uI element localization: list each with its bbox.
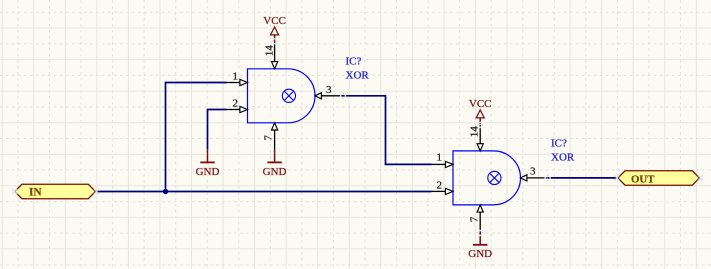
pin 7 (ground) of gate 1 bbox=[272, 123, 278, 150]
svg-text:3: 3 bbox=[530, 165, 536, 177]
XOR gate IC?/U2 body bbox=[453, 151, 521, 205]
pin 2 of gate 2 bbox=[432, 188, 454, 194]
wire IN net: port to gate2 pin2 bbox=[96, 191, 432, 193]
comment XOR (gate 2) bbox=[551, 151, 575, 163]
wire gate2 output to OUT port bbox=[548, 177, 618, 179]
svg-text:1: 1 bbox=[233, 71, 239, 83]
comment XOR (gate 1) bbox=[346, 70, 370, 82]
ground symbol at x=274.6 bbox=[263, 150, 287, 178]
svg-text:14: 14 bbox=[264, 45, 276, 57]
node marker: OUT port right tip bbox=[698, 175, 703, 180]
svg-text:7: 7 bbox=[468, 216, 480, 222]
XOR gate IC?/U1 body bbox=[248, 69, 315, 123]
pin number 14 (gate 1) bbox=[264, 45, 276, 57]
wire gate1 pin2 to ground bbox=[208, 110, 227, 150]
node marker: gate1 pin3 hotspot bbox=[340, 93, 346, 99]
ground symbol at x=207.5 bbox=[196, 150, 220, 178]
pin number 7 (gate 1) bbox=[263, 135, 275, 141]
pin 14 (power) of gate 2 bbox=[477, 125, 483, 151]
node marker: gate2 pin14 hotspot bbox=[477, 122, 483, 128]
node marker: gate2 pin3 hotspot bbox=[545, 175, 551, 181]
ground symbol at x=480.2 bbox=[468, 234, 492, 260]
svg-text:VCC: VCC bbox=[263, 15, 286, 27]
svg-text:GND: GND bbox=[196, 166, 220, 178]
power VCC symbol at x=274.6 bbox=[263, 15, 286, 41]
pin number 14 (gate 2) bbox=[469, 126, 481, 138]
pin number 7 (gate 2) bbox=[468, 216, 480, 222]
svg-text:7: 7 bbox=[263, 135, 275, 141]
svg-text:IC?: IC? bbox=[346, 56, 362, 68]
node marker: gate1 pin14 hotspot bbox=[271, 38, 277, 44]
svg-text:XOR: XOR bbox=[551, 151, 575, 163]
port IN bbox=[15, 184, 96, 198]
power VCC symbol at x=480.2 bbox=[469, 98, 492, 124]
svg-text:OUT: OUT bbox=[631, 173, 655, 185]
svg-text:1: 1 bbox=[437, 152, 443, 164]
wire gate1 output to gate2 pin1 bbox=[342, 96, 432, 165]
pin number 2 (gate 2) bbox=[437, 179, 443, 191]
designator IC? (gate 2) bbox=[551, 138, 567, 150]
pin 1 of gate 1 bbox=[227, 79, 248, 85]
pin number 2 (gate 1) bbox=[233, 98, 239, 110]
svg-text:IN: IN bbox=[29, 186, 42, 198]
pin 3 (output) of gate 1 bbox=[315, 93, 342, 99]
pin number 3 (gate 1) bbox=[326, 84, 332, 96]
pin number 3 (gate 2) bbox=[530, 165, 536, 177]
node marker: IN port right tip bbox=[94, 189, 99, 194]
pin 7 (ground) of gate 2 bbox=[477, 205, 483, 234]
pin 3 (output) of gate 2 bbox=[521, 175, 548, 181]
svg-text:3: 3 bbox=[326, 84, 332, 96]
port OUT bbox=[618, 171, 700, 186]
svg-text:2: 2 bbox=[233, 98, 239, 110]
svg-text:IC?: IC? bbox=[551, 138, 567, 150]
pin 2 of gate 1 bbox=[227, 106, 248, 112]
svg-text:14: 14 bbox=[469, 126, 481, 138]
junction on IN net bbox=[163, 189, 168, 194]
svg-text:2: 2 bbox=[437, 179, 443, 191]
pin 1 of gate 2 bbox=[432, 161, 454, 167]
designator IC? (gate 1) bbox=[346, 56, 362, 68]
node marker: IN port left tip bbox=[12, 189, 17, 194]
wire IN net branch up to gate1 pin1 bbox=[166, 83, 227, 192]
node marker: gate2 pin7 hotspot bbox=[477, 230, 483, 236]
pin 14 (power) of gate 1 bbox=[272, 41, 278, 69]
pin number 1 (gate 2) bbox=[437, 152, 443, 164]
svg-text:GND: GND bbox=[263, 166, 287, 178]
svg-text:GND: GND bbox=[468, 248, 492, 260]
pin number 1 (gate 1) bbox=[233, 71, 239, 83]
svg-text:XOR: XOR bbox=[346, 70, 370, 82]
node marker: OUT port left tip bbox=[614, 175, 619, 180]
svg-text:VCC: VCC bbox=[469, 98, 492, 110]
